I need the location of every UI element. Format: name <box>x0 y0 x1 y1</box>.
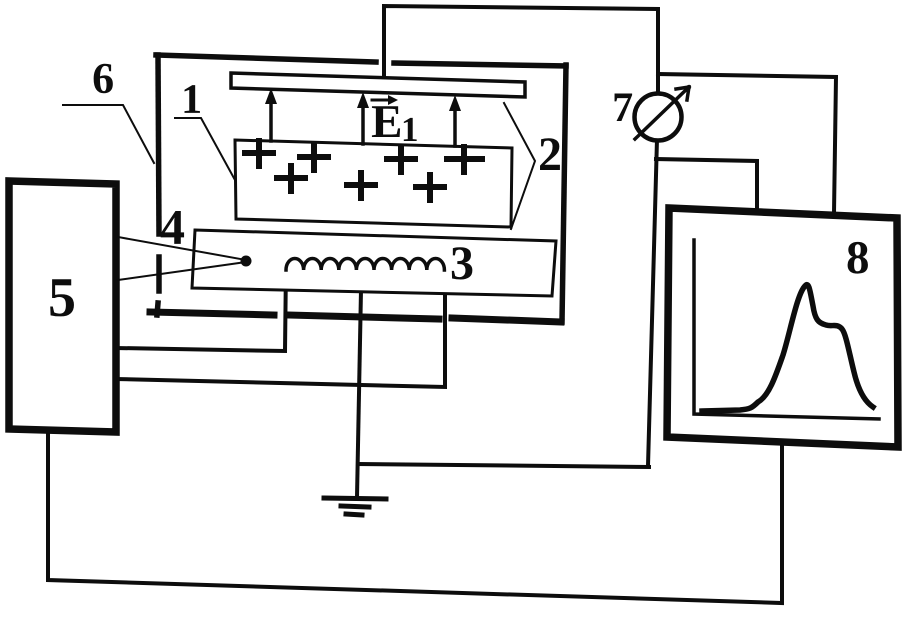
svg-text:5: 5 <box>48 267 76 329</box>
svg-text:4: 4 <box>160 199 185 255</box>
svg-text:3: 3 <box>450 237 474 290</box>
svg-text:7: 7 <box>612 85 633 131</box>
svg-text:2: 2 <box>538 128 562 181</box>
svg-text:1: 1 <box>181 77 202 123</box>
svg-text:E: E <box>371 96 402 148</box>
svg-text:8: 8 <box>846 232 870 284</box>
svg-text:6: 6 <box>92 54 114 103</box>
svg-text:1: 1 <box>401 110 419 149</box>
